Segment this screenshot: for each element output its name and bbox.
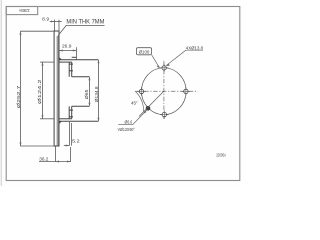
dim od ext lines <box>20 30 54 32</box>
dim 5.2 ext lines <box>69 122 71 146</box>
pcd label box <box>136 48 151 55</box>
dim 124.2 ext lines <box>40 61 54 63</box>
hat fillet bottom <box>59 121 62 124</box>
hat inner surface top <box>59 61 72 63</box>
bolt hole section lines bottom <box>69 109 73 111</box>
plate inner face top <box>68 62 70 77</box>
dim 65 line <box>89 77 91 107</box>
dim 124.2 line <box>42 62 44 119</box>
dim 134.8 line <box>98 60 100 121</box>
pcd circle <box>142 68 187 115</box>
svg-text:22005A: 22005A <box>19 8 30 13</box>
svg-text:MIN THK 7MM: MIN THK 7MM <box>66 18 104 25</box>
svg-text:5.2: 5.2 <box>72 139 80 145</box>
leader 4x13.8 <box>166 50 186 65</box>
bolt hole right <box>182 87 191 96</box>
underline dia 6.6 <box>118 123 133 125</box>
dim 26.9 line <box>59 50 76 52</box>
hat outer surface bottom <box>59 120 98 122</box>
svg-text:4XØ13.8: 4XØ13.8 <box>186 46 203 52</box>
plate top stub <box>72 56 76 58</box>
svg-text:36.2: 36.2 <box>39 156 49 162</box>
bolt hole section lines top <box>69 63 73 65</box>
dim 8.9 ext lines <box>53 20 55 31</box>
hat fillet top <box>59 57 62 60</box>
svg-text:VØ13X90°: VØ13X90° <box>118 127 135 132</box>
svg-text:Ø252.7: Ø252.7 <box>16 85 22 108</box>
min thk underline <box>66 24 104 26</box>
dim 36.2 ext lines <box>55 147 57 162</box>
dim 36.2 line <box>39 161 71 163</box>
friction ring section fill <box>57 36 60 146</box>
pcd leader <box>152 55 160 68</box>
svg-text:8.9: 8.9 <box>42 16 49 22</box>
hat inner surface bottom <box>59 118 72 120</box>
min thk leader <box>58 25 66 35</box>
bolt hole bottom <box>160 110 169 119</box>
svg-text:Ø6.6: Ø6.6 <box>125 120 133 125</box>
underline 4x13.8 <box>186 49 203 51</box>
45 deg arc <box>135 91 143 111</box>
radial line 225deg <box>139 91 164 116</box>
title box <box>6 7 38 15</box>
scan edge line <box>0 0 2 186</box>
svg-text:Ø134.8: Ø134.8 <box>94 86 100 102</box>
drawing frame <box>6 7 240 181</box>
svg-text:22005A: 22005A <box>216 152 226 157</box>
mounting face outer top <box>71 62 73 77</box>
svg-text:45°: 45° <box>131 101 138 107</box>
dim od line <box>20 31 22 146</box>
dim 5.2 line <box>64 145 70 147</box>
centre line horizontal <box>135 90 198 92</box>
friction ring outline <box>54 31 59 146</box>
bolt hole top <box>160 64 169 73</box>
svg-text:Ø100: Ø100 <box>139 49 150 54</box>
centre line vertical <box>163 61 165 120</box>
dim 26.9 ext line <box>76 47 78 59</box>
svg-text:Ø124.2: Ø124.2 <box>37 79 43 104</box>
leader set screw <box>133 110 147 124</box>
svg-text:26.9: 26.9 <box>62 44 72 50</box>
plate inner face bottom <box>68 106 70 119</box>
centre bore top line <box>72 76 90 78</box>
svg-text:Ø65: Ø65 <box>84 89 90 99</box>
dim 8.9 line <box>50 21 62 23</box>
mounting face outer bottom <box>71 106 73 119</box>
bolt hole left <box>137 87 146 96</box>
centre bore bottom line <box>72 105 90 107</box>
hat outer surface top <box>59 59 98 61</box>
set screw hole filled <box>146 106 151 111</box>
